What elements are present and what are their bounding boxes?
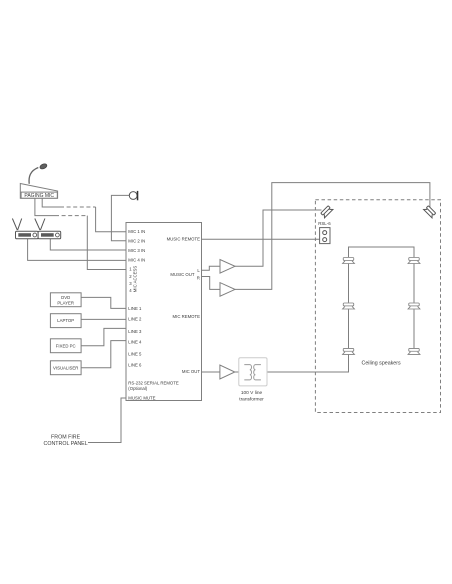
svg-text:MUSIC MUTE: MUSIC MUTE — [128, 396, 155, 401]
svg-text:LAPTOP: LAPTOP — [57, 318, 74, 323]
svg-text:FIXED PC: FIXED PC — [56, 343, 76, 348]
svg-text:PAGING MIC: PAGING MIC — [24, 193, 54, 199]
svg-text:R: R — [197, 276, 200, 281]
svg-text:MUSIC REMOTE: MUSIC REMOTE — [167, 237, 201, 242]
svg-text:100 V line: 100 V line — [241, 390, 263, 396]
svg-text:MIC 2 IN: MIC 2 IN — [128, 239, 145, 244]
svg-text:LINE 6: LINE 6 — [128, 362, 142, 367]
svg-text:RS-232 SERIAL REMOTE: RS-232 SERIAL REMOTE — [128, 381, 179, 386]
svg-text:Ceiling speakers: Ceiling speakers — [362, 361, 402, 367]
svg-text:CONTROL PANEL: CONTROL PANEL — [44, 441, 88, 447]
svg-text:LINE 2: LINE 2 — [128, 317, 142, 322]
svg-text:LINE 3: LINE 3 — [128, 329, 142, 334]
svg-text:PLAYER: PLAYER — [57, 300, 74, 305]
svg-text:MIC 1 IN: MIC 1 IN — [128, 229, 145, 234]
svg-text:DVD: DVD — [61, 295, 70, 300]
svg-text:MIC 4 IN: MIC 4 IN — [128, 258, 145, 263]
svg-text:transformer: transformer — [239, 396, 264, 402]
svg-text:FROM FIRE: FROM FIRE — [51, 435, 81, 441]
svg-text:LINE 4: LINE 4 — [128, 340, 142, 345]
svg-text:MIC 3 IN: MIC 3 IN — [128, 248, 145, 253]
svg-text:MIC REMOTE: MIC REMOTE — [173, 314, 201, 319]
svg-text:LINE 5: LINE 5 — [128, 352, 142, 357]
svg-text:MIC ACCESS: MIC ACCESS — [132, 266, 137, 293]
svg-text:MIC OUT: MIC OUT — [182, 369, 201, 374]
svg-text:LINE 1: LINE 1 — [128, 306, 142, 311]
svg-text:VISUALISER: VISUALISER — [53, 365, 78, 370]
svg-text:MUSIC OUT: MUSIC OUT — [170, 272, 194, 277]
svg-text:(Optional): (Optional) — [128, 386, 147, 391]
svg-text:RSL-6: RSL-6 — [318, 221, 331, 226]
